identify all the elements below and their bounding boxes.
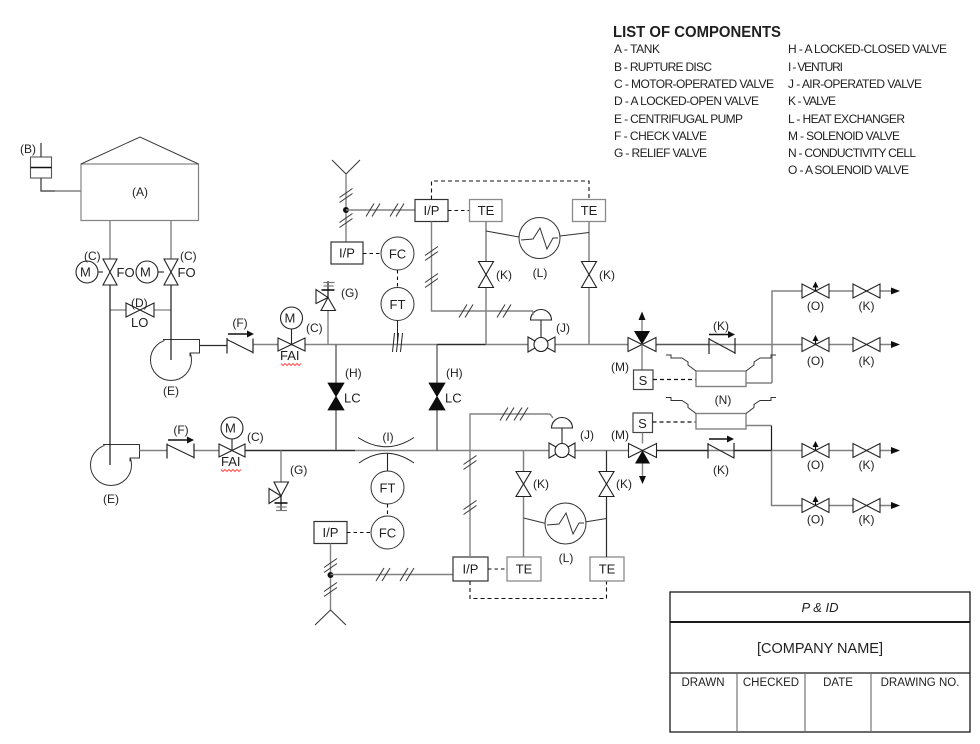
svg-text:G - RELIEF VALVE: G - RELIEF VALVE <box>614 146 707 160</box>
locked-closed valve H1 <box>335 345 337 451</box>
svg-text:FO: FO <box>178 265 196 280</box>
relief valve G2 <box>280 451 282 483</box>
wire I/P1 to FC1 dashed <box>363 253 381 255</box>
svg-text:F - CHECK VALVE: F - CHECK VALVE <box>614 129 707 143</box>
svg-text:DRAWN: DRAWN <box>681 677 724 689</box>
svg-text:S: S <box>638 416 647 431</box>
check valve K lower <box>708 443 734 459</box>
svg-text:(K): (K) <box>859 354 875 368</box>
wire cell upper to riser <box>746 382 772 384</box>
svg-text:(F): (F) <box>232 316 247 330</box>
centrifugal pump E2 <box>91 445 140 486</box>
conductivity cell N <box>696 414 746 430</box>
junction node lower <box>328 572 334 578</box>
temperature element TE1 <box>470 200 503 222</box>
motor valve C FAI1 <box>278 307 305 351</box>
svg-text:(C): (C) <box>306 321 323 335</box>
check valve F2 <box>167 444 194 459</box>
solenoid valve O4 <box>802 499 829 513</box>
svg-text:LC: LC <box>445 391 462 406</box>
relief valve G1 <box>327 311 329 345</box>
svg-text:(M): (M) <box>611 360 629 374</box>
wire venturi to FT2 <box>387 453 389 471</box>
solenoid box S2 <box>633 413 653 433</box>
svg-text:I - VENTURI: I - VENTURI <box>788 60 843 74</box>
hash marks junction to I/P2 <box>366 204 404 217</box>
valve K4v <box>599 472 614 497</box>
centrifugal pump E1 <box>151 340 200 381</box>
svg-text:H - A LOCKED-CLOSED VALVE: H - A LOCKED-CLOSED VALVE <box>788 42 947 56</box>
svg-text:(E): (E) <box>103 492 119 506</box>
hash marks I/P3 air line <box>464 408 529 515</box>
solenoid box S1 <box>634 370 654 390</box>
svg-text:(G): (G) <box>341 286 358 300</box>
svg-text:(H): (H) <box>345 366 362 380</box>
svg-text:[COMPANY NAME]: [COMPANY NAME] <box>757 641 883 657</box>
check valve K upper <box>709 338 735 354</box>
svg-text:M: M <box>80 265 91 280</box>
wire tank outlet left <box>109 221 111 260</box>
svg-text:M: M <box>140 265 151 280</box>
venturi I <box>358 438 414 447</box>
I/P transducer 4 <box>314 522 347 544</box>
svg-text:LIST OF COMPONENTS: LIST OF COMPONENTS <box>613 24 781 41</box>
flow controller FC1 <box>381 237 414 270</box>
wire I/P2 to TE1 dashed <box>448 210 470 212</box>
svg-text:(C): (C) <box>247 430 264 444</box>
svg-text:(O): (O) <box>807 299 824 313</box>
svg-text:DATE: DATE <box>823 677 853 689</box>
svg-text:S: S <box>639 373 648 388</box>
wire S1 to cell dashed <box>653 379 696 381</box>
svg-text:(L): (L) <box>533 266 548 280</box>
wire S2 to cell N dashed <box>653 421 697 423</box>
svg-text:(K): (K) <box>713 463 729 477</box>
svg-text:A - TANK: A - TANK <box>614 42 660 56</box>
svg-text:I/P: I/P <box>339 246 355 261</box>
svg-text:(K): (K) <box>713 319 729 333</box>
valve K5 <box>853 444 880 458</box>
valve K6 <box>853 499 880 513</box>
solenoid valve M2 <box>629 444 657 458</box>
valve K1 <box>853 284 880 298</box>
flow controller FC2 <box>371 516 404 549</box>
svg-text:I/P: I/P <box>323 525 339 540</box>
svg-text:D - A LOCKED-OPEN VALVE: D - A LOCKED-OPEN VALVE <box>614 94 759 108</box>
wire I/P2 to TE2 dashed loop <box>432 181 590 200</box>
svg-text:I/P: I/P <box>424 203 440 218</box>
svg-text:(O): (O) <box>807 513 824 527</box>
svg-text:(I): (I) <box>382 430 393 444</box>
wire I/P4 to FC2 dashed <box>347 532 371 534</box>
wire I/P4 down air supply <box>330 544 332 611</box>
svg-text:(J): (J) <box>580 428 594 442</box>
svg-text:(C): (C) <box>84 249 101 263</box>
flow arrow line4 <box>891 502 900 509</box>
wire TE3 up <box>523 451 525 558</box>
vent Y lower <box>315 610 331 625</box>
svg-text:(B): (B) <box>20 142 36 156</box>
svg-text:FC: FC <box>379 526 396 541</box>
svg-text:TE: TE <box>581 203 598 218</box>
check valve F1 <box>227 338 253 354</box>
svg-text:FO: FO <box>117 265 135 280</box>
I/P transducer 3 <box>453 557 488 581</box>
svg-text:(K): (K) <box>859 299 875 313</box>
vent Y top <box>332 160 346 174</box>
valve K3v <box>516 472 531 497</box>
svg-text:(K): (K) <box>859 513 875 527</box>
solenoid valve O2 <box>802 338 829 352</box>
svg-text:(F): (F) <box>173 423 188 437</box>
svg-text:(O): (O) <box>807 354 824 368</box>
locked-open valve D <box>126 303 154 317</box>
svg-text:B - RUPTURE DISC: B - RUPTURE DISC <box>614 60 712 74</box>
temperature element TE4 <box>590 557 624 581</box>
svg-text:(E): (E) <box>163 384 179 398</box>
junction node upper <box>343 207 349 213</box>
svg-text:FAI: FAI <box>221 454 241 469</box>
svg-text:(H): (H) <box>446 366 463 380</box>
wire FT2 to FC2 dashed <box>387 504 389 516</box>
wire C2 down to pump E1 <box>170 285 172 360</box>
hash marks I/P4 stem <box>324 559 337 597</box>
svg-text:M: M <box>225 421 236 436</box>
I/P transducer 1 <box>331 242 363 264</box>
svg-text:(K): (K) <box>533 477 549 491</box>
svg-text:M: M <box>285 311 296 326</box>
svg-text:FT: FT <box>390 297 406 312</box>
title block <box>670 592 970 732</box>
wire junction to I/P2 <box>346 209 415 211</box>
svg-text:TE: TE <box>516 562 533 577</box>
svg-text:L - HEAT EXCHANGER: L - HEAT EXCHANGER <box>788 112 905 126</box>
svg-text:O - A SOLENOID VALVE: O - A SOLENOID VALVE <box>788 163 909 177</box>
solenoid valve M1 <box>628 338 656 352</box>
locked-closed valve H2 <box>436 345 438 451</box>
svg-text:J - AIR-OPERATED VALVE: J - AIR-OPERATED VALVE <box>788 77 922 91</box>
svg-text:LO: LO <box>131 315 148 330</box>
spellcheck squiggle FAI2 <box>221 470 241 472</box>
valve K1v <box>479 262 494 288</box>
svg-text:(N): (N) <box>715 393 732 407</box>
flow arrow mid branch <box>891 341 900 348</box>
svg-text:(A): (A) <box>132 185 148 199</box>
svg-text:E - CENTRIFUGAL PUMP: E - CENTRIFUGAL PUMP <box>614 112 743 126</box>
svg-text:P & ID: P & ID <box>801 600 838 615</box>
wire TE4 up <box>606 451 608 558</box>
wire pump E2 outlet <box>140 450 168 452</box>
wire I/P3 to TE3 dashed <box>488 568 507 570</box>
svg-text:M - SOLENOID VALVE: M - SOLENOID VALVE <box>788 129 900 143</box>
svg-text:(D): (D) <box>131 296 148 310</box>
svg-text:TE: TE <box>599 562 616 577</box>
rupture disc B <box>20 142 52 178</box>
svg-text:CHECKED: CHECKED <box>743 677 799 689</box>
valve K2v <box>582 262 597 288</box>
spellcheck squiggle FAI1 <box>281 364 301 366</box>
svg-text:(G): (G) <box>290 463 307 477</box>
flow arrow line3 <box>891 447 900 454</box>
wire lower main line dark segments <box>245 450 355 452</box>
air-operated valve J2 <box>549 418 575 459</box>
wire TE2 down <box>588 222 590 345</box>
wire I/P3 air to J2 <box>470 414 550 557</box>
svg-text:C - MOTOR-OPERATED VALVE: C - MOTOR-OPERATED VALVE <box>614 77 774 91</box>
svg-text:(O): (O) <box>807 458 824 472</box>
conductivity cell upper <box>696 371 746 387</box>
motor-operated valve C1 <box>76 259 117 285</box>
wire rupture disc to tank <box>41 178 55 191</box>
temperature element TE3 <box>507 557 541 581</box>
motor-operated valve C2 <box>136 259 178 285</box>
svg-text:FAI: FAI <box>280 348 300 363</box>
wire C1 down to pump E2 <box>109 285 111 465</box>
svg-text:K - VALVE: K - VALVE <box>788 94 836 108</box>
wire lower right branch <box>771 426 773 451</box>
svg-text:(K): (K) <box>859 458 875 472</box>
hash marks vent stem <box>340 189 353 228</box>
svg-text:(K): (K) <box>616 477 632 491</box>
hash marks I/P2 air line <box>425 247 511 318</box>
flow transmitter FT1 <box>381 288 414 321</box>
wire upper main line <box>253 344 891 346</box>
legend right column <box>788 42 947 177</box>
wire I/P2 air to J1 <box>432 222 534 312</box>
svg-text:LC: LC <box>344 391 361 406</box>
wire pump E1 outlet <box>200 345 228 347</box>
svg-text:(M): (M) <box>611 428 629 442</box>
wire junction to I/P3 <box>331 574 454 576</box>
solenoid valve O3 <box>802 444 829 458</box>
svg-text:(C): (C) <box>180 249 197 263</box>
wire cell N to downcomer <box>746 425 772 427</box>
wire TE1 down <box>485 222 487 345</box>
heat exchanger L1 <box>486 231 519 237</box>
legend left column <box>614 42 774 160</box>
svg-text:TE: TE <box>478 203 495 218</box>
svg-text:(K): (K) <box>599 268 615 282</box>
wire I/P3 to TE4 dashed loop <box>470 581 607 599</box>
wire vent stem <box>345 174 347 242</box>
hash marks on wire to I/P3 <box>376 568 414 581</box>
svg-text:(L): (L) <box>559 551 574 565</box>
wire FC1 to FT1 dashed <box>397 270 399 288</box>
air-operated valve J1 <box>528 310 555 353</box>
I/P transducer 2 <box>415 200 448 222</box>
flow arrow top branch <box>891 288 900 295</box>
wire lower main line <box>194 450 891 452</box>
svg-text:FT: FT <box>380 481 396 496</box>
flow transmitter FT2 <box>371 471 404 504</box>
svg-text:(K): (K) <box>496 268 512 282</box>
svg-text:FC: FC <box>389 247 406 262</box>
svg-text:N - CONDUCTIVITY CELL: N - CONDUCTIVITY CELL <box>788 146 916 160</box>
valve K2 <box>853 338 880 352</box>
svg-text:(J): (J) <box>556 321 570 335</box>
heat exchanger L2 <box>524 518 547 524</box>
orifice flow element <box>393 333 403 352</box>
solenoid valve O1 <box>802 284 829 298</box>
wire tank outlet right <box>170 221 172 260</box>
tank A <box>81 137 199 221</box>
svg-text:I/P: I/P <box>463 562 479 577</box>
wire D branch <box>110 309 126 311</box>
wire FT1 to orifice <box>397 321 399 345</box>
wire upper right branch <box>772 291 802 383</box>
temperature element TE2 <box>573 200 606 222</box>
svg-text:DRAWING NO.: DRAWING NO. <box>881 677 960 689</box>
wire upper main line dark segment <box>437 344 486 346</box>
motor valve C FAI2 <box>219 417 245 457</box>
